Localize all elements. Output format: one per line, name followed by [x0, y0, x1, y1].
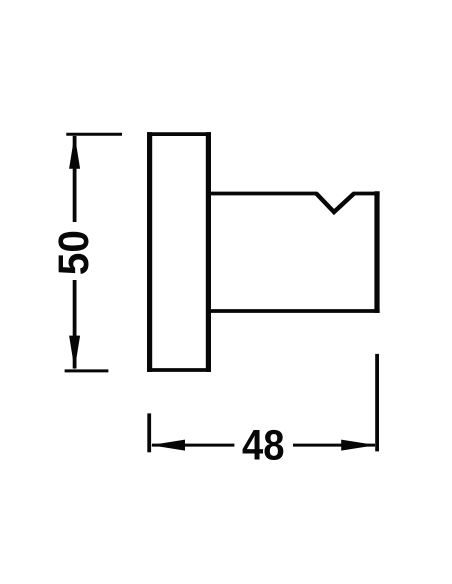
hook body: top edge right segment	[353, 192, 380, 196]
wall plate: left edge	[147, 132, 152, 372]
dimension 50: top arrowhead	[69, 134, 80, 168]
svg-text:50: 50	[50, 230, 98, 275]
dimension 50: bottom arrowhead	[69, 336, 80, 370]
dimension 48: left arrowhead	[150, 440, 185, 451]
dimension 48: right extension line	[375, 354, 379, 452]
wall plate: top edge	[147, 132, 211, 136]
dimension 50: bottom extension line	[65, 369, 109, 372]
hook body: V-notch	[316, 194, 354, 213]
dimension 50: lower dimension line segment	[73, 280, 77, 369]
dimension 48: left extension line	[147, 413, 151, 452]
dimension 50: upper dimension line segment	[73, 136, 77, 222]
hook body: right edge	[374, 191, 379, 313]
hook body: bottom edge	[207, 309, 380, 313]
wall plate: bottom edge	[147, 368, 211, 372]
dimension 48: right arrowhead	[341, 440, 376, 451]
wall plate: right edge	[206, 132, 211, 372]
dimension 48: right dimension line segment	[293, 444, 375, 447]
hook body: top edge left segment	[207, 192, 318, 196]
dimension 50: top extension line	[66, 133, 122, 136]
dimension 48: left dimension line segment	[152, 444, 234, 447]
svg-text:48: 48	[242, 422, 285, 470]
